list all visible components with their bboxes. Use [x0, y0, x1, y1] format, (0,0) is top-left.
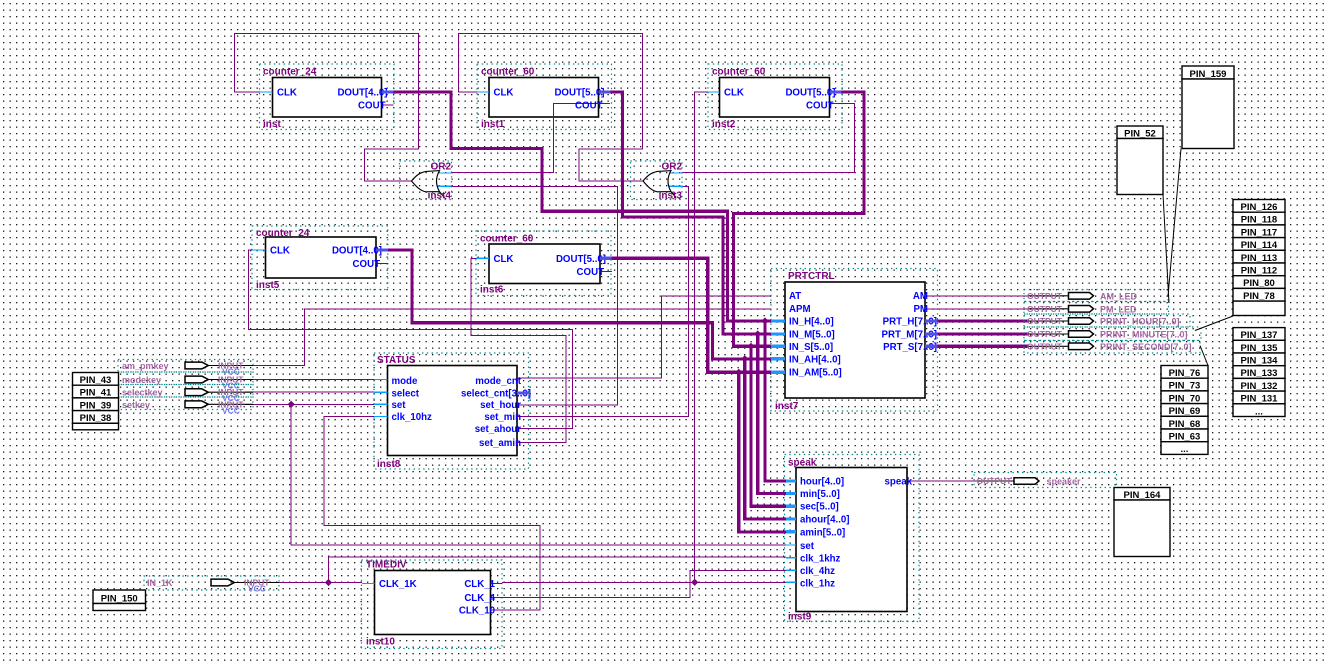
- svg-text:PIN_137: PIN_137: [1241, 330, 1278, 341]
- OR2 gate inst4 selection box: [400, 161, 452, 200]
- svg-text:PIN_133: PIN_133: [1241, 368, 1278, 379]
- svg-text:OUTPUT: OUTPUT: [1027, 341, 1063, 351]
- wire inst5 COUT stub: [376, 263, 388, 265]
- svg-text:ahour[4..0]: ahour[4..0]: [800, 515, 850, 526]
- svg-text:PIN_63: PIN_63: [1169, 432, 1201, 443]
- flyline pin assignment: [1195, 316, 1233, 331]
- svg-text:DOUT[4..0]: DOUT[4..0]: [332, 246, 382, 257]
- output pin stub 6 at 490.5,610: [491, 609, 503, 611]
- svg-text:PRTCTRL: PRTCTRL: [788, 271, 835, 282]
- junction: [735, 369, 742, 376]
- svg-text:modekey: modekey: [122, 375, 161, 385]
- svg-text:PIN_117: PIN_117: [1241, 227, 1277, 238]
- svg-text:PIN_150: PIN_150: [101, 593, 138, 604]
- svg-text:DOUT[5..0]: DOUT[5..0]: [785, 88, 835, 99]
- svg-text:TIMEDIV: TIMEDIV: [366, 560, 407, 571]
- svg-text:mode: mode: [392, 376, 418, 387]
- pin stub (thin) 13 at 786,582.3: [786, 581, 796, 583]
- junction: [325, 579, 332, 586]
- svg-text:CLK_4: CLK_4: [464, 593, 495, 604]
- bus pin stub 7 at 786,493.5: [786, 492, 796, 495]
- svg-text:hour[4..0]: hour[4..0]: [800, 477, 844, 488]
- svg-text:speak: speak: [885, 477, 913, 488]
- svg-text:inst2: inst2: [712, 119, 736, 130]
- pin stub (thin) 5 at 476,258.3: [476, 257, 489, 259]
- svg-text:CLK: CLK: [494, 88, 514, 99]
- pin stub (thin) 4 at 252,250: [252, 249, 266, 251]
- wire setkey to speak set: [291, 404, 786, 545]
- svg-text:PIN_131: PIN_131: [1241, 394, 1279, 405]
- svg-text:PIN_126: PIN_126: [1241, 202, 1278, 213]
- svg-text:CLK_1K: CLK_1K: [379, 579, 417, 590]
- pin stub (thin) 7 at 374,392.2: [374, 391, 388, 393]
- svg-text:COUT: COUT: [358, 101, 386, 112]
- wire IN_1K branch to clk_1khz: [329, 557, 787, 582]
- svg-text:OR2: OR2: [430, 162, 451, 173]
- svg-text:OUTPUT: OUTPUT: [1027, 316, 1063, 326]
- output pin stub 2 at 925,308.8: [925, 308, 938, 310]
- svg-text:IN_AH[4..0]: IN_AH[4..0]: [789, 354, 841, 365]
- svg-text:PIN_113: PIN_113: [1241, 253, 1277, 264]
- svg-text:inst8: inst8: [377, 459, 401, 470]
- svg-text:PIN_80: PIN_80: [1243, 278, 1275, 289]
- block inst6 counter_60: [476, 231, 611, 296]
- bus inst1 DOUT to IN_M: [599, 92, 772, 334]
- bus pin stub 5 at 771,372.3: [771, 371, 785, 374]
- svg-text:PIN_118: PIN_118: [1241, 215, 1277, 226]
- svg-text:PIN_38: PIN_38: [80, 413, 112, 424]
- pin stub (thin) 1 at 260,92: [260, 91, 273, 93]
- svg-text:inst10: inst10: [366, 637, 395, 648]
- bus pin tip 8 at 925,346.3: [925, 345, 938, 348]
- svg-text:IN_AM[5..0]: IN_AM[5..0]: [789, 368, 842, 379]
- wire set_ahour to inst5 CLK: [249, 250, 573, 429]
- pin stub (thin) 16 at 437.5,186.3: [438, 185, 452, 187]
- output pin stub 7 at 517,378: [517, 377, 529, 379]
- bus inst2 DOUT to IN_S: [734, 92, 865, 346]
- svg-text:set_ahour: set_ahour: [475, 424, 522, 435]
- svg-text:PIN_134: PIN_134: [1241, 356, 1279, 367]
- svg-text:...: ...: [1181, 444, 1189, 455]
- svg-text:am_pmkey: am_pmkey: [122, 361, 169, 371]
- wire IN_1K to CLK_1K: [245, 582, 362, 584]
- svg-text:AM_LED: AM_LED: [1100, 291, 1138, 301]
- svg-text:PIN_159: PIN_159: [1190, 69, 1227, 80]
- svg-text:PIN_68: PIN_68: [1169, 419, 1201, 430]
- svg-text:AM: AM: [913, 291, 928, 302]
- svg-text:OUTPUT: OUTPUT: [1027, 329, 1063, 339]
- input IN_1K: [144, 576, 279, 590]
- pin stub (thin) 15 at 437.5,173: [438, 172, 452, 174]
- block inst2 counter_60: [708, 64, 842, 130]
- wire setkey: [245, 403, 374, 405]
- bus inst DOUT to IN_H: [382, 92, 772, 321]
- output pin stub 8 at 517,404.9: [517, 404, 529, 406]
- svg-text:counter_24: counter_24: [263, 67, 317, 78]
- svg-text:select: select: [392, 388, 420, 399]
- block inst7 PRTCTRL: [771, 269, 938, 412]
- svg-text:STATUS: STATUS: [377, 355, 416, 366]
- svg-text:...: ...: [1255, 406, 1263, 417]
- svg-text:PIN_164: PIN_164: [1124, 490, 1162, 501]
- junction: [754, 330, 761, 337]
- output pin stub 3 at 907,481: [907, 480, 919, 482]
- wire modekey: [245, 379, 374, 381]
- output PM_LED: [1024, 302, 1169, 315]
- pin stub (thin) 11 at 786,557.9: [786, 557, 796, 559]
- wire inst2 CLK / clk_1hz net: [695, 92, 708, 582]
- bus pin tip 1 at 381.5,92: [382, 90, 394, 93]
- pin stub (thin) 8 at 374,404.3: [374, 403, 388, 405]
- wire PM output: [925, 308, 1029, 310]
- output pin stub 9 at 517,416.5: [517, 416, 529, 418]
- svg-text:inst7: inst7: [775, 401, 799, 412]
- input setkey: [118, 397, 253, 410]
- svg-text:inst9: inst9: [788, 612, 812, 623]
- svg-text:inst4: inst4: [428, 191, 452, 202]
- svg-text:PIN_73: PIN_73: [1169, 381, 1201, 392]
- flyline pin assignment: [1163, 195, 1169, 304]
- svg-text:PIN_78: PIN_78: [1243, 291, 1275, 302]
- block inst8 STATUS: [374, 353, 529, 469]
- svg-text:speak: speak: [788, 458, 817, 469]
- wire inst2 COUT to inst3: [682, 104, 855, 173]
- wire set_amin to inst6 CLK: [471, 258, 566, 442]
- svg-text:counter_60: counter_60: [712, 67, 766, 78]
- bus pin tip 3 at 829.5,92: [830, 90, 842, 93]
- bus pin tip 9 at 517,393: [517, 391, 530, 394]
- block inst10 TIMEDIV: [362, 560, 503, 649]
- output pin stub 1 at 925,295.8: [925, 295, 938, 297]
- svg-text:PIN_52: PIN_52: [1124, 128, 1156, 139]
- svg-text:CLK: CLK: [270, 246, 290, 257]
- junction: [288, 401, 295, 408]
- svg-text:AT: AT: [789, 291, 801, 302]
- bus PRT_H out: [925, 319, 1029, 322]
- svg-text:clk_4hz: clk_4hz: [800, 566, 835, 577]
- pin stub (thin) 14 at 362,583.5: [362, 583, 375, 585]
- svg-text:inst6: inst6: [480, 285, 504, 296]
- svg-text:IN_M[5..0]: IN_M[5..0]: [789, 330, 835, 341]
- pin table PIN_137: [1233, 328, 1285, 341]
- svg-text:mode_cnt: mode_cnt: [475, 376, 522, 387]
- svg-text:clk_10hz: clk_10hz: [392, 412, 433, 423]
- svg-text:PIN_41: PIN_41: [80, 388, 112, 399]
- svg-text:IN_S[5..0]: IN_S[5..0]: [789, 342, 833, 353]
- output AM_LED: [1024, 290, 1168, 302]
- svg-text:min[5..0]: min[5..0]: [800, 489, 840, 500]
- svg-text:counter_60: counter_60: [481, 67, 535, 78]
- flyline pin assignment: [1168, 149, 1181, 297]
- wire clk_10hz from CLK_10: [324, 417, 540, 611]
- svg-text:VCC: VCC: [222, 405, 240, 415]
- svg-text:CLK: CLK: [494, 254, 514, 265]
- output PRINT_MINUTE[7..0]: [1024, 327, 1201, 341]
- svg-text:COUT: COUT: [575, 101, 603, 112]
- wire set_hour to inst4 in2: [444, 186, 618, 405]
- svg-text:set: set: [392, 400, 407, 411]
- wire CLK_4 to clk_4hz: [502, 570, 786, 597]
- svg-text:PIN_76: PIN_76: [1169, 368, 1201, 379]
- wire mode_cnt to AT: [517, 296, 771, 378]
- pin stub (thin) 18 at 669,186.3: [669, 185, 683, 187]
- wire set_min to inst3 in2: [517, 187, 689, 417]
- bus pin tip 5 at 600,258.3: [600, 257, 612, 260]
- svg-text:DOUT[5..0]: DOUT[5..0]: [556, 254, 606, 265]
- svg-text:PRINT_HOUR[7..0]: PRINT_HOUR[7..0]: [1100, 317, 1180, 327]
- junction: [741, 355, 748, 362]
- svg-text:inst3: inst3: [659, 191, 683, 202]
- block inst9 speak: [785, 455, 920, 622]
- bus pin stub 10 at 786,531.9: [786, 530, 796, 533]
- svg-text:sec[5..0]: sec[5..0]: [800, 502, 839, 513]
- svg-text:set_amin: set_amin: [479, 438, 521, 449]
- svg-text:PIN_69: PIN_69: [1169, 406, 1201, 417]
- svg-text:inst: inst: [263, 119, 281, 130]
- wire am_pmkey to APM: [245, 309, 771, 366]
- bus pin stub 9 at 786,519: [786, 517, 796, 520]
- bus to speak hour: [765, 321, 786, 481]
- svg-text:PIN_39: PIN_39: [80, 400, 112, 411]
- pin table PIN_76: [1161, 366, 1208, 379]
- bus pin stub 3 at 771,346.3: [771, 345, 785, 348]
- svg-text:COUT: COUT: [577, 267, 605, 278]
- svg-text:set_hour: set_hour: [480, 400, 521, 411]
- output pin stub 5 at 490.5,597.5: [491, 597, 503, 599]
- bus to speak amin: [739, 372, 786, 532]
- input am_pmkey: [118, 360, 253, 373]
- svg-text:inst1: inst1: [481, 119, 505, 130]
- pin stub (thin) 9 at 374,416.5: [374, 416, 388, 418]
- svg-text:PRINT_MINUTE[7..0]: PRINT_MINUTE[7..0]: [1100, 330, 1188, 340]
- svg-text:COUT: COUT: [806, 101, 834, 112]
- block inst1 counter_60: [477, 64, 612, 130]
- block inst counter_24: [260, 64, 395, 130]
- wire inst COUT stub: [382, 104, 394, 106]
- pin stub (thin) 3 at 708,92: [708, 91, 720, 93]
- bus pin tip 7 at 925,334: [925, 332, 938, 335]
- svg-text:counter_24: counter_24: [256, 228, 310, 239]
- wire AM output: [925, 295, 1029, 297]
- svg-text:DOUT[4..0]: DOUT[4..0]: [337, 88, 387, 99]
- pin table PIN_52: [1117, 126, 1163, 139]
- bus to speak sec: [751, 346, 786, 506]
- junction: [747, 343, 754, 350]
- bus pin stub 6 at 786,481: [786, 479, 796, 482]
- bus inst5 DOUT to IN_AH: [376, 250, 772, 359]
- svg-text:set: set: [800, 541, 815, 552]
- svg-text:clk_1khz: clk_1khz: [800, 554, 841, 565]
- svg-text:APM: APM: [789, 304, 811, 315]
- svg-text:IN_H[4..0]: IN_H[4..0]: [789, 317, 834, 328]
- svg-text:set_min: set_min: [484, 412, 521, 423]
- output PRINT_HOUR[7..0]: [1024, 314, 1190, 327]
- svg-text:OUTPUT: OUTPUT: [977, 476, 1013, 486]
- pin table PIN_159: [1182, 66, 1234, 79]
- bus pin tip 2 at 598.5,92: [599, 90, 611, 93]
- svg-text:counter_60: counter_60: [480, 234, 534, 245]
- svg-text:VCC: VCC: [248, 584, 266, 594]
- svg-text:COUT: COUT: [353, 259, 381, 270]
- wire inst1 COUT to inst4: [452, 104, 611, 173]
- svg-text:OUTPUT: OUTPUT: [1027, 304, 1063, 314]
- pin table PIN_43: [73, 373, 119, 386]
- output pin stub 10 at 517,428.6: [517, 428, 529, 430]
- OR2 gate inst3 selection box: [631, 161, 683, 200]
- svg-text:amin[5..0]: amin[5..0]: [800, 527, 845, 538]
- pin table PIN_150: [93, 590, 146, 604]
- bus to speak min: [758, 334, 786, 494]
- output pin stub 11 at 517,442.3: [517, 441, 529, 443]
- svg-text:PM_LED: PM_LED: [1100, 304, 1137, 314]
- bus to speak ahour: [745, 359, 786, 519]
- pin table PIN_126: [1233, 200, 1285, 213]
- svg-text:CLK_1: CLK_1: [464, 579, 495, 590]
- bus pin stub 8 at 786,506.2: [786, 505, 796, 508]
- svg-text:PIN_132: PIN_132: [1241, 381, 1278, 392]
- bus inst6 DOUT to IN_AM: [600, 258, 772, 372]
- input selectkey: [118, 385, 253, 398]
- svg-text:CLK: CLK: [724, 88, 744, 99]
- block inst5 counter_24: [252, 226, 388, 290]
- svg-text:clk_1hz: clk_1hz: [800, 579, 835, 590]
- wire CLK_1 to clk_1hz: [502, 581, 786, 583]
- svg-text:PIN_112: PIN_112: [1241, 266, 1277, 277]
- wire inst CLK loop: [235, 34, 419, 182]
- wire speak output: [919, 480, 977, 482]
- output pin stub 4 at 490.5,583.5: [491, 583, 503, 585]
- flyline pin assignment: [1200, 346, 1208, 366]
- output speaker: [974, 473, 1117, 488]
- wire selectkey: [245, 391, 374, 393]
- bus pin stub 1 at 771,321: [771, 319, 785, 322]
- svg-text:PM: PM: [913, 304, 928, 315]
- svg-text:PRINT_SECOND[7..0]: PRINT_SECOND[7..0]: [1100, 342, 1192, 352]
- svg-text:setkey: setkey: [122, 400, 150, 410]
- OR2 gate inst3: [643, 171, 676, 198]
- svg-text:PIN_114: PIN_114: [1241, 240, 1278, 251]
- input modekey: [118, 372, 253, 385]
- wire inst6 COUT stub: [600, 271, 612, 273]
- bus PRT_S out: [925, 345, 1029, 348]
- bus pin stub 2 at 771,334: [771, 332, 785, 335]
- wire inst1 CLK loop: [459, 34, 644, 182]
- svg-text:selectkey: selectkey: [122, 388, 163, 398]
- pin stub (thin) 17 at 669,173: [669, 172, 683, 174]
- pin stub (thin) 2 at 477,92: [477, 91, 489, 93]
- svg-text:CLK_10: CLK_10: [459, 606, 495, 617]
- pin table PIN_164: [1114, 488, 1170, 501]
- svg-text:IN_1K: IN_1K: [147, 578, 173, 588]
- junction: [691, 579, 698, 586]
- bus PRT_M out: [925, 332, 1029, 335]
- pin stub (thin) 10 at 786,545: [786, 544, 796, 546]
- bus pin stub 4 at 771,358.9: [771, 357, 785, 360]
- pin stub (thin) 12 at 786,570.3: [786, 569, 796, 571]
- pin stub (thin) 6 at 374,379.5: [374, 379, 388, 381]
- svg-text:CLK: CLK: [277, 88, 297, 99]
- svg-text:speaker: speaker: [1047, 477, 1082, 487]
- bus pin tip 4 at 376,250: [376, 248, 388, 251]
- output PRINT_SECOND[7..0]: [1024, 341, 1200, 354]
- junction: [761, 317, 768, 324]
- OR2 gate inst4: [412, 171, 445, 198]
- svg-text:DOUT[5..0]: DOUT[5..0]: [554, 88, 604, 99]
- svg-text:OUTPUT: OUTPUT: [1027, 291, 1063, 301]
- svg-text:inst5: inst5: [256, 280, 280, 291]
- svg-text:PIN_70: PIN_70: [1169, 393, 1201, 404]
- svg-text:PIN_135: PIN_135: [1241, 343, 1279, 354]
- svg-text:PIN_43: PIN_43: [80, 375, 112, 386]
- bus pin tip 6 at 925,321: [925, 319, 938, 322]
- svg-text:OR2: OR2: [661, 162, 682, 173]
